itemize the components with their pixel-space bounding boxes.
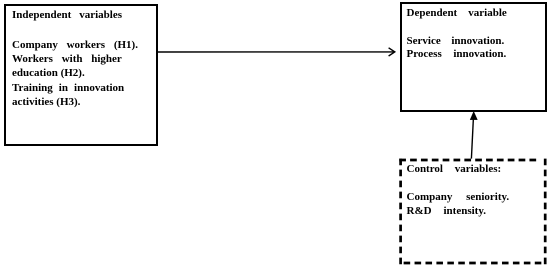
dashed edge: left xyxy=(399,159,402,265)
box: independent variables (solid border) xyxy=(4,4,158,146)
text: activities (H3). xyxy=(12,97,80,108)
text: Control variables: (title) xyxy=(407,164,502,175)
text: Workers with higher xyxy=(12,54,122,65)
box: dependent variable (solid border) xyxy=(400,2,547,113)
dashed edge: bottom xyxy=(399,262,542,265)
text: Process innovation. xyxy=(407,49,507,60)
text: Independent variables (title) xyxy=(12,10,122,21)
text: R&amp;D intensity. xyxy=(407,206,486,217)
text: Company seniority. xyxy=(407,192,510,203)
dashed edge: top xyxy=(399,159,536,162)
text: Dependent variable (title) xyxy=(407,8,507,19)
dashed edge: right xyxy=(544,159,547,265)
text: Service innovation. xyxy=(407,36,505,47)
text: education (H2). xyxy=(12,68,85,79)
text: Training in innovation xyxy=(12,83,124,94)
text: Company workers (H1). xyxy=(12,40,138,51)
